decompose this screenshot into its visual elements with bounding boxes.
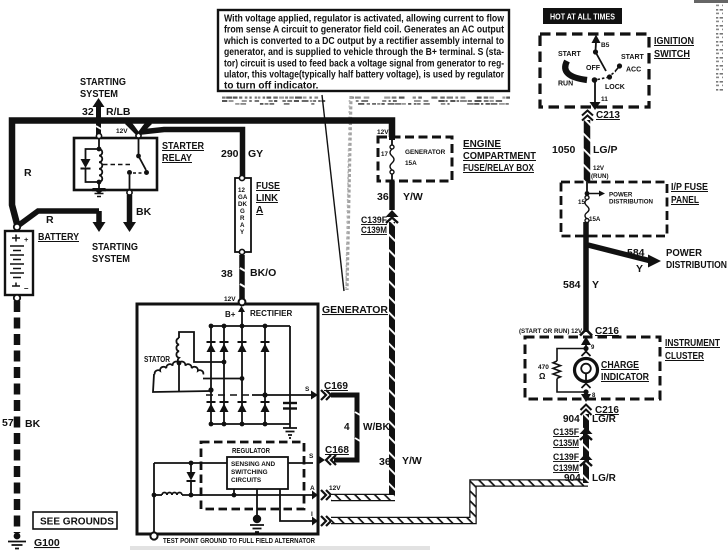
svg-text:POWER: POWER	[609, 192, 633, 199]
svg-text:S: S	[305, 386, 310, 393]
svg-text:C139M: C139M	[361, 225, 387, 236]
label ENGINE COMPARTMENT FUSE/RELAY BOX	[463, 139, 536, 174]
svg-text:STARTING: STARTING	[80, 77, 126, 88]
cluster entry pin 9	[581, 337, 595, 357]
svg-text:CLUSTER: CLUSTER	[665, 351, 705, 362]
sensing and switching circuits box	[227, 457, 288, 489]
svg-text:G: G	[240, 208, 245, 215]
svg-text:With voltage applied, regulato: With voltage applied, regulator is activ…	[224, 14, 504, 25]
wire 38 BK/O	[221, 255, 276, 299]
svg-text:12V: 12V	[377, 129, 389, 136]
wire 584 Y to power distribution	[586, 222, 661, 332]
starter relay box	[74, 138, 157, 190]
svg-text:A: A	[256, 205, 263, 216]
svg-text:38: 38	[221, 268, 233, 280]
svg-text:904: 904	[564, 473, 581, 484]
svg-text:SENSING AND: SENSING AND	[231, 461, 276, 468]
svg-text:584: 584	[627, 247, 645, 259]
svg-text:12V: 12V	[593, 165, 605, 172]
stator windings	[144, 332, 244, 393]
svg-text:G100: G100	[34, 537, 60, 549]
connector C135	[553, 427, 593, 449]
svg-text:15A: 15A	[405, 160, 417, 167]
regulator I line	[280, 489, 313, 521]
regulator ground	[250, 489, 264, 532]
svg-text:GENERATOR: GENERATOR	[405, 149, 446, 156]
relay coil terminal	[96, 133, 101, 138]
starting system feed arrow (top)	[80, 77, 126, 136]
wire: top bus to engine fuse box	[389, 120, 395, 140]
svg-text:Ω: Ω	[539, 372, 546, 381]
svg-text:CHARGE: CHARGE	[601, 360, 639, 371]
wire 4 W/BK (C169 to C168)	[331, 395, 390, 460]
relay clamp diode	[81, 149, 100, 182]
SEE GROUNDS box	[33, 512, 117, 529]
wire: relay feed V junction	[127, 122, 243, 180]
svg-text:R: R	[24, 167, 32, 179]
rectifier diode D5	[207, 402, 216, 412]
label I/P FUSE PANEL	[671, 182, 708, 206]
B+ terminal	[224, 296, 292, 319]
scan noise right edge	[694, 0, 728, 92]
scan noise band below note box	[222, 97, 510, 105]
rectifier diode D7	[238, 402, 247, 412]
svg-text:START: START	[621, 54, 645, 61]
power distribution arrow (internal)	[587, 191, 654, 206]
svg-text:A: A	[240, 222, 245, 229]
rectifier diode D8	[261, 402, 270, 412]
svg-text:SYSTEM: SYSTEM	[80, 89, 118, 100]
svg-text:LG/P: LG/P	[593, 144, 618, 156]
label GENERATOR	[322, 304, 388, 316]
capacitor C	[283, 403, 297, 409]
svg-text:(START OR RUN) 12V: (START OR RUN) 12V	[519, 328, 583, 335]
svg-text:GENERATOR: GENERATOR	[322, 304, 388, 316]
svg-text:BK/O: BK/O	[250, 267, 276, 279]
svg-text:904: 904	[563, 414, 580, 425]
svg-text:32: 32	[82, 106, 94, 118]
svg-text:12V: 12V	[224, 296, 236, 303]
svg-text:POWER: POWER	[666, 248, 703, 259]
svg-text:15: 15	[578, 199, 585, 206]
svg-text:DISTRIBUTION: DISTRIBUTION	[666, 260, 727, 271]
label R (battery feed wire)	[24, 167, 32, 179]
svg-text:+: +	[24, 235, 29, 244]
svg-text:(RUN): (RUN)	[591, 173, 609, 180]
svg-text:36: 36	[377, 191, 389, 203]
svg-text:CIRCUITS: CIRCUITS	[231, 477, 262, 484]
svg-text:1050: 1050	[552, 144, 576, 156]
svg-text:LG/R: LG/R	[592, 473, 617, 484]
svg-text:Y/W: Y/W	[403, 191, 423, 203]
label REGULATOR	[232, 446, 270, 455]
svg-text:LINK: LINK	[256, 193, 279, 204]
label 12V (RUN)	[591, 165, 609, 180]
svg-text:C135F: C135F	[553, 427, 579, 438]
generator box	[137, 304, 318, 534]
connector C216 bottom	[581, 405, 620, 417]
svg-text:DISTRIBUTION: DISTRIBUTION	[609, 199, 654, 206]
regulator box	[201, 442, 304, 509]
label 12V (relay)	[116, 128, 128, 135]
connector C213	[582, 110, 620, 121]
label BATTERY	[38, 232, 79, 243]
wire 904 LG/R	[583, 414, 589, 483]
svg-text:REGULATOR: REGULATOR	[232, 446, 270, 455]
svg-text:to turn off indicator.: to turn off indicator.	[224, 81, 319, 92]
fuse 15 (15A)	[578, 182, 601, 223]
label 584 Y	[563, 279, 599, 291]
svg-text:Y: Y	[592, 279, 599, 291]
rectifier diode D2	[220, 342, 229, 352]
svg-text:SWITCH: SWITCH	[654, 49, 690, 60]
test point lead	[150, 463, 157, 540]
connector C139 (engine harness)	[361, 210, 399, 236]
svg-text:I/P FUSE: I/P FUSE	[671, 182, 708, 193]
svg-text:R/LB: R/LB	[106, 106, 131, 118]
svg-text:HOT AT ALL TIMES: HOT AT ALL TIMES	[550, 13, 616, 22]
svg-text:INDICATOR: INDICATOR	[601, 372, 650, 383]
S rail to C169	[206, 386, 318, 400]
svg-text:B+: B+	[225, 310, 236, 319]
svg-text:17: 17	[381, 151, 388, 158]
svg-text:C169: C169	[324, 381, 348, 392]
label 32 R/LB	[82, 106, 131, 118]
connector C168	[319, 445, 349, 465]
wire A run (striped)	[331, 494, 395, 502]
charge indicator lamp	[575, 359, 598, 382]
svg-text:–: –	[24, 284, 29, 293]
svg-text:tor) circuit is used to feed b: tor) circuit is used to feed back a volt…	[224, 58, 504, 69]
scan noise bottom	[130, 546, 430, 550]
label STARTER RELAY	[162, 141, 205, 164]
ignition switch box	[540, 34, 649, 107]
connector C169	[321, 381, 348, 400]
label 904 LG/R lower	[564, 473, 617, 484]
rectifier bridge rails	[209, 312, 290, 426]
regulator S line	[154, 453, 314, 465]
svg-text:ACC: ACC	[626, 67, 641, 74]
label TEST POINT	[163, 536, 315, 545]
wire 36 Y/W upper	[377, 181, 423, 210]
wire BK to starting system	[123, 195, 152, 232]
svg-text:12: 12	[238, 187, 245, 194]
fuse link A	[235, 175, 251, 254]
ground G100	[8, 533, 60, 549]
ignition output 11	[590, 82, 609, 110]
rectifier diode D4	[261, 342, 270, 352]
svg-text:470: 470	[538, 364, 549, 371]
label 290 GY	[221, 148, 263, 160]
svg-text:from sense A circuit to genera: from sense A circuit to generator field …	[224, 25, 505, 36]
rectifier diode D6	[220, 402, 229, 412]
connector C139 (lower)	[553, 452, 593, 474]
ignition feed arrow B5	[592, 35, 610, 55]
svg-text:4: 4	[344, 422, 350, 433]
svg-text:STARTER: STARTER	[162, 141, 205, 152]
svg-text:C139F: C139F	[553, 452, 579, 463]
svg-text:R: R	[240, 215, 245, 222]
svg-text:PANEL: PANEL	[671, 195, 699, 206]
svg-text:584: 584	[563, 279, 581, 291]
svg-text:C168: C168	[325, 445, 349, 456]
svg-text:W/BK: W/BK	[363, 422, 390, 433]
wire 1050 LG/P	[552, 120, 618, 182]
label INSTRUMENT CLUSTER	[665, 338, 720, 362]
wire Y/W to A terminal	[389, 222, 395, 497]
HOT AT ALL TIMES	[543, 8, 622, 24]
svg-text:C213: C213	[596, 110, 620, 121]
battery B1	[5, 224, 33, 301]
svg-text:290: 290	[221, 148, 239, 160]
wire: main battery bus	[12, 121, 392, 225]
svg-text:S: S	[309, 453, 314, 460]
svg-text:STARTING: STARTING	[92, 242, 138, 253]
svg-text:12V: 12V	[329, 485, 341, 492]
svg-text:12V: 12V	[116, 128, 128, 135]
label IGNITION SWITCH	[654, 36, 694, 60]
svg-text:DK: DK	[238, 201, 247, 208]
wire R to starting system	[19, 211, 106, 232]
relay coil L1	[97, 139, 103, 184]
svg-text:TEST POINT GROUND TO FULL FIEL: TEST POINT GROUND TO FULL FIELD ALTERNAT…	[163, 536, 315, 545]
svg-text:15A: 15A	[589, 216, 601, 223]
svg-text:RUN: RUN	[558, 81, 573, 88]
svg-text:R: R	[46, 214, 54, 226]
svg-text:OFF: OFF	[586, 65, 601, 72]
svg-text:57: 57	[2, 417, 14, 429]
svg-text:LG/R: LG/R	[592, 414, 617, 425]
relay switch	[103, 138, 149, 190]
label 904 LG/R upper	[563, 414, 617, 425]
label 36 Y/W lower	[379, 455, 422, 468]
I/P fuse panel box	[561, 182, 667, 236]
label 12V (engine box)	[377, 129, 389, 136]
svg-text:Y: Y	[636, 263, 643, 275]
svg-text:ulator, this voltage(typically: ulator, this voltage(typically half batt…	[224, 70, 504, 81]
generator A terminal arrow	[312, 485, 341, 500]
svg-text:FUSE: FUSE	[256, 181, 280, 192]
svg-text:GA: GA	[238, 194, 248, 201]
instrument cluster box	[525, 337, 660, 399]
svg-text:IGNITION: IGNITION	[654, 36, 694, 47]
svg-text:GY: GY	[248, 148, 263, 160]
rectifier ground	[283, 424, 297, 438]
svg-text:RECTIFIER: RECTIFIER	[250, 309, 292, 318]
relay coil ground	[92, 182, 106, 197]
svg-text:RELAY: RELAY	[162, 153, 192, 164]
regulator diode	[187, 465, 196, 495]
svg-text:LOCK: LOCK	[605, 84, 625, 91]
label CHARGE INDICATOR	[601, 360, 650, 383]
svg-text:which is converted to a DC out: which is converted to a DC output by a r…	[223, 36, 504, 47]
svg-text:SWITCHING: SWITCHING	[231, 469, 268, 476]
svg-text:START: START	[558, 51, 582, 58]
note box (balloon)	[218, 10, 509, 92]
label POWER DISTRIBUTION (right)	[666, 248, 727, 271]
svg-text:FUSE/RELAY BOX: FUSE/RELAY BOX	[463, 163, 534, 174]
svg-text:STATOR: STATOR	[144, 355, 170, 364]
field coil (A line)	[152, 485, 315, 497]
rectifier diode D3	[238, 342, 247, 352]
wire 57 BK (battery ground)	[2, 301, 41, 533]
note pointer to generator	[322, 95, 351, 291]
connector C216 top	[519, 326, 619, 337]
label FUSE LINK A	[256, 181, 280, 216]
fuse 17 (15A generator)	[381, 140, 446, 181]
relay switch terminal	[136, 133, 141, 138]
svg-text:B5: B5	[601, 42, 610, 49]
label STARTING SYSTEM (bottom arrows)	[92, 242, 138, 265]
svg-text:BK: BK	[25, 418, 41, 430]
ignition positions	[558, 51, 645, 91]
cluster exit pin 8	[581, 384, 596, 403]
svg-text:BATTERY: BATTERY	[38, 232, 79, 243]
svg-text:ENGINE: ENGINE	[463, 139, 501, 150]
svg-text:Y/W: Y/W	[402, 455, 422, 467]
svg-text:36: 36	[379, 456, 391, 468]
svg-text:SYSTEM: SYSTEM	[92, 254, 130, 265]
svg-text:11: 11	[601, 96, 608, 103]
engine compartment fuse/relay box	[378, 137, 452, 181]
svg-text:C216: C216	[595, 326, 619, 337]
rectifier diode D1	[207, 342, 216, 352]
svg-text:BK: BK	[136, 206, 152, 218]
wire I run (striped, to instrument cluster)	[331, 483, 588, 521]
svg-text:COMPARTMENT: COMPARTMENT	[463, 151, 536, 162]
svg-text:SEE GROUNDS: SEE GROUNDS	[40, 517, 114, 528]
svg-text:INSTRUMENT: INSTRUMENT	[665, 338, 720, 349]
resistor 470 ohm	[538, 349, 586, 393]
generator I terminal arrow	[312, 516, 331, 526]
relay output terminal	[127, 190, 132, 195]
svg-text:C135M: C135M	[553, 438, 579, 449]
svg-text:generator, and is supplied to: generator, and is supplied to vehicle th…	[224, 47, 504, 58]
